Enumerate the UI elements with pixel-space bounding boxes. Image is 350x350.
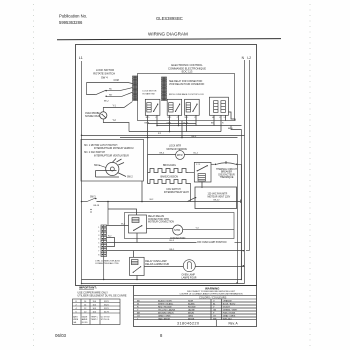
svg-text:MOTEUR CONVECTION: MOTEUR CONVECTION — [148, 222, 174, 224]
svg-text:BRUN: BRUN — [188, 313, 194, 315]
svg-text:ROTATE SW: ROTATE SW — [143, 93, 155, 96]
junction node below SW3 — [107, 201, 109, 203]
svg-text:WARNING: WARNING — [205, 287, 220, 291]
broil element E1 — [148, 155, 188, 173]
svg-text:VIOLET: VIOLET — [223, 307, 231, 309]
svg-text:4: 4 — [98, 239, 99, 241]
svg-text:STYLE UL: STYLE UL — [101, 319, 110, 321]
convection motor M2 — [173, 225, 183, 235]
svg-text:PINK / ROSE: PINK / ROSE — [223, 313, 236, 315]
svg-text:COLORS / COULEURS: COLORS / COULEURS — [199, 295, 227, 299]
svg-text:LOCK MOTOR: LOCK MOTOR — [143, 91, 157, 93]
wire to convection relay coil — [108, 209, 137, 215]
wire right bus from EOC output — [241, 130, 243, 280]
svg-text:GA.: GA. — [73, 321, 77, 324]
svg-text:UTILISER SEULEMENT DU FIL DE C: UTILISER SEULEMENT DU FIL DE CUIVRE — [78, 294, 127, 297]
svg-text:VOIR RELAIS POUR CONNEXION: VOIR RELAIS POUR CONNEXION — [169, 83, 205, 86]
wire bus under EOC y125.6 — [157, 125, 242, 127]
lock motor rotate switch SW4 labels — [93, 68, 115, 80]
door switch SW3 wire — [82, 201, 88, 203]
wire bake right drop — [188, 184, 191, 202]
svg-text:CONNECTEUR AU CTRL: CONNECTEUR AU CTRL — [95, 262, 120, 265]
svg-text:W: W — [137, 304, 139, 306]
svg-text:MTR: MTR — [174, 228, 180, 232]
svg-text:BK-5: BK-5 — [170, 249, 176, 251]
header rule — [57, 39, 281, 40]
wire relay to lamp — [144, 266, 183, 268]
svg-text:3173: 3173 — [104, 311, 110, 313]
svg-text:7: 7 — [98, 250, 99, 252]
svg-text:BLACK / NOIR: BLACK / NOIR — [158, 300, 172, 303]
svg-text:BK-6: BK-6 — [228, 128, 234, 130]
svg-text:OFF OVEN LAMP POSITION: OFF OVEN LAMP POSITION — [197, 241, 227, 244]
svg-text:L1: L1 — [219, 117, 221, 119]
svg-text:H1: H1 — [212, 117, 214, 119]
svg-text:LOCK MOTOR: LOCK MOTOR — [96, 68, 114, 72]
wire P3 aux stubs — [107, 238, 115, 247]
svg-text:GRAY / GRIS: GRAY / GRIS — [158, 315, 171, 318]
svg-text:AMER.: AMER. — [82, 318, 88, 321]
wire bottom bus 1 — [82, 279, 242, 281]
svg-text:BK-9: BK-9 — [192, 136, 198, 138]
svg-text:Publication No.: Publication No. — [59, 14, 87, 19]
svg-text:OVEN PROBE: OVEN PROBE — [85, 113, 100, 115]
convection relay labels — [148, 215, 174, 224]
svg-text:EOC 113: EOC 113 — [182, 70, 193, 74]
door switch SW3 — [87, 198, 96, 202]
relay pin stubs and labels — [148, 115, 226, 131]
wire conv motor out — [183, 228, 234, 230]
perforation dots left — [33, 4, 35, 346]
svg-text:BK-4: BK-4 — [160, 153, 166, 155]
relay K1 — [145, 99, 160, 115]
svg-text:MTR: MTR — [177, 153, 183, 157]
svg-text:DU FIL: DU FIL — [82, 322, 88, 324]
svg-text:MOTEUR VERROU: MOTEUR VERROU — [167, 149, 188, 151]
svg-text:L1: L1 — [79, 56, 83, 60]
latch cam drawing — [96, 159, 127, 178]
warning text — [179, 291, 243, 296]
wire bottom bus 2 — [82, 283, 245, 285]
svg-text:RELAIS LAMPE FOUR: RELAIS LAMPE FOUR — [145, 263, 169, 266]
wire conv relay input W-2 — [107, 225, 129, 227]
thermal circuit breaker CB1 — [211, 161, 241, 280]
svg-text:ROTATE SWITCH: ROTATE SWITCH — [93, 72, 115, 76]
wire broil right to DLB — [188, 172, 194, 174]
oven lamp relay K7 — [130, 257, 145, 275]
svg-text:BROWN / BRUN: BROWN / BRUN — [158, 313, 174, 315]
svg-text:120 VAC FAN MTR: 120 VAC FAN MTR — [208, 193, 228, 196]
relay K2 — [167, 99, 182, 115]
svg-text:3321: 3321 — [104, 304, 110, 306]
svg-text:OVEN LAMP: OVEN LAMP — [182, 274, 196, 277]
svg-text:GREEN / VERT: GREEN / VERT — [223, 310, 238, 312]
wire bus BK-5 — [107, 250, 245, 252]
svg-text:6: 6 — [98, 247, 99, 249]
svg-text:NO. 1 MOTOR LATCH SWITCH: NO. 1 MOTOR LATCH SWITCH — [84, 144, 118, 147]
svg-text:YELLOW / JAUNE: YELLOW / JAUNE — [158, 309, 176, 312]
svg-text:BLANC: BLANC — [188, 303, 195, 306]
svg-text:WIRE: WIRE — [73, 319, 79, 321]
svg-text:BAKE/CUISSON: BAKE/CUISSON — [161, 175, 179, 178]
svg-text:ELECTRONIC CONTROL: ELECTRONIC CONTROL — [171, 63, 203, 67]
svg-text:SEE RELAY FOR CONNECTION: SEE RELAY FOR CONNECTION — [169, 80, 203, 83]
svg-text:RED / ROUGE: RED / ROUGE — [158, 307, 172, 309]
svg-text:SW 2: SW 2 — [127, 176, 133, 178]
warning box — [134, 286, 257, 327]
svg-text:CONVECTION MTR: CONVECTION MTR — [148, 219, 169, 221]
svg-text:1: 1 — [98, 227, 99, 229]
oven probe sensor symbol — [100, 112, 107, 119]
wire fan motor feed — [191, 201, 241, 203]
svg-text:AWG: AWG — [73, 316, 78, 319]
fan switch contact — [188, 197, 196, 201]
wire bus y137.8 — [120, 137, 238, 139]
svg-text:Rev. A: Rev. A — [229, 321, 239, 325]
wire L1 main horizontal — [82, 135, 245, 137]
svg-text:318046220: 318046220 — [177, 322, 200, 326]
header publication number — [59, 14, 87, 26]
svg-text:GRIS: GRIS — [188, 316, 194, 318]
svg-text:GRAY / GRIS: GRAY / GRIS — [223, 315, 236, 318]
oven lamp DS1 — [183, 260, 195, 272]
svg-text:BROIL OVEN BAKE COOKTOP LOCK: BROIL OVEN BAKE COOKTOP LOCK — [169, 93, 204, 96]
connector P2 — [162, 77, 167, 101]
svg-text:3: 3 — [98, 235, 99, 237]
wire gauge table — [73, 299, 121, 325]
relay K3 — [185, 99, 200, 115]
wire right bus from lock motor — [237, 155, 239, 284]
connector P3 — [98, 225, 106, 257]
EOC right pin routing — [228, 112, 235, 121]
svg-text:TEMP C: TEMP C — [91, 319, 99, 321]
thermal breaker labels — [216, 168, 237, 179]
svg-text:RELAY OVEN LAMP: RELAY OVEN LAMP — [145, 260, 167, 263]
lock motor M1 — [176, 151, 185, 160]
svg-text:SONDE FOUR: SONDE FOUR — [85, 116, 100, 118]
svg-text:L2: L2 — [224, 117, 226, 119]
svg-text:TEMP C: TEMP C — [91, 317, 99, 319]
svg-text:COM: COM — [114, 80, 119, 82]
wire N vertical feeder — [244, 60, 246, 284]
svg-text:BR: BR — [137, 313, 140, 315]
relay K4 double — [209, 97, 228, 115]
wire SW4 NC to P1 — [106, 88, 132, 91]
fan motor assembly box — [195, 187, 237, 209]
svg-text:ROUGE: ROUGE — [188, 307, 196, 309]
svg-text:DISJONCTEUR: DISJONCTEUR — [218, 174, 235, 176]
svg-text:CTRL CONNECTOR ALSO: CTRL CONNECTOR ALSO — [95, 259, 120, 262]
wire probe bottom Y-2 — [103, 119, 129, 132]
svg-text:1 2 3: 1 2 3 — [196, 164, 200, 166]
wire SW4 NO to P1 — [106, 92, 132, 96]
EOC title — [168, 63, 206, 74]
color code table — [134, 299, 256, 320]
svg-text:NOIR: NOIR — [188, 301, 194, 303]
wire latch SW2 drop — [141, 181, 143, 202]
wire lamp relay pins — [133, 251, 135, 258]
svg-text:IMPORTANT:: IMPORTANT: — [79, 286, 97, 290]
svg-text:NO. 2 FAN SWITCH: NO. 2 FAN SWITCH — [84, 151, 105, 154]
svg-text:LAMPE FOUR: LAMPE FOUR — [182, 276, 197, 279]
wire SW3 junction drop to P3 — [107, 202, 109, 226]
svg-text:THERMIQUE: THERMIQUE — [220, 177, 234, 179]
svg-text:N.O.: N.O. — [146, 117, 150, 119]
svg-text:N.O.: N.O. — [168, 117, 172, 119]
svg-text:06/03: 06/03 — [55, 333, 67, 338]
wire lamp to N — [195, 266, 244, 268]
wire P3 bottom drop — [103, 257, 105, 280]
svg-text:GLES389SBC: GLES389SBC — [156, 16, 183, 21]
wire relay drops — [148, 121, 214, 138]
svg-text:RELAY-RELAIS: RELAY-RELAIS — [148, 215, 165, 218]
svg-text:BK-22: BK-22 — [214, 200, 221, 202]
wire lock motor left — [148, 138, 176, 155]
svg-text:NC: NC — [109, 89, 113, 91]
svg-text:INTERRUPTEUR MOTEUR VERROU: INTERRUPTEUR MOTEUR VERROU — [94, 148, 134, 150]
svg-text:3321: 3321 — [104, 301, 110, 303]
wire lock motor right — [184, 154, 237, 156]
part number strip — [134, 319, 256, 321]
latch switch assembly box — [81, 139, 144, 181]
wire L2 bend into lamp bus — [246, 250, 250, 252]
svg-text:JAUNE: JAUNE — [188, 309, 195, 312]
svg-text:SW 3: SW 3 — [90, 197, 96, 199]
svg-text:THERMAL CIRCUIT: THERMAL CIRCUIT — [216, 168, 237, 171]
connector P1 — [133, 76, 138, 101]
wire DLB coil drop — [201, 182, 203, 188]
wire conv relay to motor — [147, 228, 173, 230]
wire short bus under relays — [148, 123, 196, 125]
svg-text:L2: L2 — [247, 56, 251, 60]
switch SW4 contact arm — [95, 90, 106, 95]
wire bus y131.6 — [129, 131, 221, 133]
svg-text:SW 4: SW 4 — [101, 75, 108, 79]
svg-text:INTERRUPTEUR VENT.: INTERRUPTEUR VENT. — [164, 192, 190, 194]
svg-text:LOCK MTR: LOCK MTR — [169, 146, 181, 148]
svg-text:BLUE / BLEU: BLUE / BLEU — [223, 304, 236, 306]
wire conv relay bottom pin — [136, 233, 138, 243]
latch assembly notes — [84, 144, 134, 158]
svg-text:5995363286: 5995363286 — [59, 20, 83, 25]
wire probe top Y-1 — [103, 102, 132, 112]
svg-text:3321: 3321 — [104, 308, 110, 310]
svg-text:N.O.: N.O. — [185, 117, 189, 119]
convection section enclosure — [125, 213, 235, 239]
EOC electronic control box U1 — [138, 74, 235, 121]
svg-text:UL STYLE: UL STYLE — [101, 317, 111, 319]
wire oven lamp bus with off position note — [107, 242, 197, 244]
svg-text:MOTEUR VENT 120V: MOTEUR VENT 120V — [208, 197, 231, 199]
bake element E2 — [148, 173, 188, 184]
svg-text:ORANGE: ORANGE — [223, 300, 233, 303]
svg-text:BROIL/GRIL: BROIL/GRIL — [163, 165, 177, 167]
svg-text:8: 8 — [98, 254, 99, 256]
wire EOC output to right bus — [231, 126, 242, 130]
svg-text:INTERRUPTEUR VENTILATEUR: INTERRUPTEUR VENTILATEUR — [94, 154, 129, 157]
wire COM to connector P1 — [87, 83, 133, 84]
wire switch leg — [87, 83, 96, 95]
svg-text:GN: GN — [213, 310, 217, 312]
perforation dots right — [309, 4, 311, 346]
convection relay K6 — [129, 215, 147, 233]
wire L1 vertical feeder — [81, 61, 83, 284]
svg-text:BK-18: BK-18 — [94, 205, 100, 207]
svg-text:5: 5 — [98, 243, 99, 245]
svg-text:2: 2 — [98, 231, 99, 233]
wire L2 vertical feeder — [249, 60, 251, 251]
svg-text:GAGE: GAGE — [82, 316, 88, 319]
svg-text:BK-2: BK-2 — [104, 101, 110, 103]
svg-text:FAN SWITCH: FAN SWITCH — [167, 188, 182, 191]
svg-text:BREAKER: BREAKER — [221, 171, 232, 174]
svg-text:NO: NO — [109, 94, 113, 96]
svg-text:WHITE / BLANC: WHITE / BLANC — [158, 303, 174, 306]
DLB relay K5 — [194, 162, 211, 182]
pin wire color labels — [145, 123, 225, 125]
outer diagram border box — [76, 45, 257, 286]
svg-text:WIRING DIAGRAM: WIRING DIAGRAM — [148, 32, 188, 37]
